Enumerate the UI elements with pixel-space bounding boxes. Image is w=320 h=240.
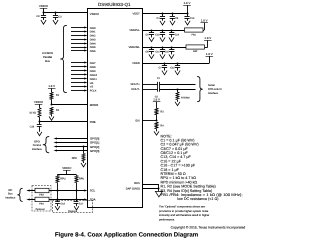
- wire RPU rail: [58, 174, 77, 176]
- label I2C Bus Interface: [5, 189, 16, 200]
- svg-text:Figure 8-4. Coax Application C: Figure 8-4. Coax Application Connection …: [55, 231, 199, 238]
- resistor RTERM: [176, 92, 189, 100]
- pin VDDIO label: [90, 12, 100, 16]
- svg-text:I2C: I2C: [8, 189, 12, 192]
- brace LVCMOS parallel bus: [60, 25, 67, 92]
- svg-text:DIN8: DIN8: [90, 66, 96, 69]
- pin DIN3 wire+arrow: [71, 38, 96, 41]
- copyright line: [171, 225, 246, 229]
- node junction C3: [55, 12, 57, 14]
- power label 1.8 V (VDDPLL): [200, 19, 208, 23]
- ferrite bead FB2: [186, 45, 205, 53]
- wire 1.8V to R3: [156, 102, 158, 109]
- pin DOUT+ label: [131, 83, 141, 86]
- capacitor C5: [146, 30, 155, 42]
- node SCL junction (right col): [76, 190, 78, 192]
- svg-text:LVCMOS: LVCMOS: [42, 52, 53, 55]
- svg-text:C13: C13: [190, 17, 195, 20]
- label LVCMOS Parallel Bus: [42, 52, 53, 63]
- svg-text:DIN9: DIN9: [90, 70, 96, 73]
- label GPO Control Interface: [32, 140, 43, 151]
- power label 1.8 V (VDDD): [206, 52, 214, 57]
- pin GPO[2] wire+arrow: [54, 145, 100, 149]
- svg-text:DIN2: DIN2: [90, 35, 96, 38]
- wire SDA to C17: [76, 199, 78, 201]
- capacitor C3: [53, 13, 62, 25]
- ground (below R4): [154, 131, 159, 135]
- svg-text:Parallel: Parallel: [43, 56, 52, 59]
- capacitor C18: [30, 122, 42, 132]
- wire RPU to SCL: [57, 183, 59, 191]
- pin VDDT label: [132, 12, 140, 15]
- pin DIN4 wire+arrow: [71, 42, 96, 45]
- capacitor C1 (series): [157, 77, 161, 87]
- node RTERM junction: [177, 89, 179, 91]
- svg-text:GPO[3]: GPO[3]: [90, 149, 100, 153]
- svg-text:DOUT-: DOUT-: [131, 88, 139, 91]
- pin GPO[1] wire+arrow: [54, 141, 100, 145]
- svg-text:MODE: MODE: [90, 103, 99, 107]
- wire R2 to ground: [51, 114, 53, 116]
- ferrite bead FB4: [35, 197, 49, 205]
- pin DIN11 wire+arrow: [71, 77, 97, 80]
- brace GPO control interface: [43, 137, 49, 153]
- svg-text:PDB: PDB: [90, 120, 96, 124]
- svg-text:HS: HS: [90, 82, 94, 85]
- svg-text:Serial: Serial: [208, 84, 215, 87]
- svg-text:1.8 V: 1.8 V: [204, 36, 211, 40]
- capacitor C12: [170, 63, 180, 75]
- brace I2C bus interface: [17, 188, 22, 201]
- wire VDDIO stub: [66, 170, 68, 174]
- svg-text:provisions to provide higher s: provisions to provide higher system nois…: [159, 210, 209, 213]
- svg-text:VDDIO: VDDIO: [90, 12, 100, 16]
- svg-text:DIN6: DIN6: [90, 50, 96, 53]
- resistor RPU (SDA): [75, 174, 84, 182]
- svg-text:10 kΩ: 10 kΩ: [29, 112, 36, 115]
- ferrite bead FB1: [185, 28, 204, 36]
- resistor R2: [50, 107, 60, 114]
- svg-text:Copyright © 2016, Texas Instru: Copyright © 2016, Texas Instruments Inco…: [171, 225, 246, 229]
- svg-text:C15: C15: [165, 50, 170, 53]
- resistor 10 kOhm: [29, 108, 41, 117]
- wire DOUT- (left of C2): [142, 89, 157, 91]
- op-amp U1 serializer DS90UB933-Q1 chip body: [88, 9, 143, 208]
- svg-text:DIN0: DIN0: [90, 27, 96, 30]
- svg-text:SCL: SCL: [90, 189, 96, 193]
- svg-text:1.8 V: 1.8 V: [206, 52, 213, 56]
- svg-text:VDDT: VDDT: [132, 12, 140, 15]
- svg-text:immunity and will therefore re: immunity and will therefore result in hi…: [159, 214, 209, 217]
- capacitor C17: [74, 202, 84, 207]
- svg-text:Optional: Optional: [68, 210, 77, 213]
- svg-text:RTERM: RTERM: [181, 96, 189, 99]
- wire VDDD rail: [142, 63, 209, 65]
- capacitor C8: [36, 13, 46, 25]
- svg-text:Control: Control: [33, 144, 42, 147]
- optional dashed box (C16 C17): [52, 201, 92, 213]
- capacitor C2 (series): [155, 87, 160, 99]
- pin DIN1 wire+arrow: [71, 30, 96, 33]
- node RPD junction on GPO[2]: [83, 146, 85, 148]
- svg-text:VDDCML: VDDCML: [128, 46, 140, 49]
- pin SCL label: [90, 189, 96, 193]
- svg-text:FPD-Link III: FPD-Link III: [208, 88, 222, 91]
- node SCL junction (left col): [57, 190, 59, 192]
- pin VDDCML label: [128, 46, 140, 49]
- power label 1.8 V (VDDT): [183, 1, 191, 5]
- svg-text:VS: VS: [90, 86, 94, 89]
- svg-text:VDDPLL: VDDPLL: [129, 29, 140, 32]
- node IDX junction: [156, 120, 158, 122]
- capacitor C10: [155, 30, 165, 42]
- wire VDDCML rail: [142, 47, 186, 49]
- svg-text:FB2: FB2: [193, 50, 198, 53]
- node DAP junction: [158, 188, 160, 190]
- resistor RPD: [72, 154, 85, 162]
- ground (below C18): [37, 132, 42, 136]
- svg-text:RPU: RPU: [79, 178, 84, 181]
- wire 1.8V to R1: [51, 88, 53, 92]
- node PDB junction: [39, 121, 41, 123]
- ground (power ground triangle): [155, 191, 162, 197]
- svg-text:RES: RES: [134, 182, 140, 185]
- node MODE junction: [51, 104, 53, 106]
- node junction C8: [43, 12, 45, 14]
- svg-text:C16: C16: [60, 203, 65, 206]
- wire RES: [142, 184, 159, 186]
- power label VDDIO (PDB pullup): [34, 100, 44, 104]
- svg-text:VDDIO: VDDIO: [62, 166, 72, 170]
- wire DOUT- to RTERM: [177, 89, 179, 92]
- resistor R4: [155, 122, 164, 129]
- wire VDDIO to 10k: [39, 104, 41, 108]
- ground (below RPD): [81, 163, 86, 167]
- svg-text:DIN7: DIN7: [90, 62, 96, 65]
- svg-text:1.8 V: 1.8 V: [201, 19, 208, 23]
- wire FB2 to 1.8V: [205, 40, 208, 47]
- wire SDA: [26, 198, 87, 200]
- note component values text: [161, 134, 243, 201]
- node SDA junction (right col): [76, 199, 78, 201]
- resistor R3: [155, 108, 164, 115]
- svg-text:C12: C12: [170, 67, 175, 70]
- pin IDX label: [135, 120, 140, 123]
- figure caption: [55, 231, 199, 238]
- wire R3 to IDX node: [156, 115, 158, 121]
- wire MODE: [52, 104, 88, 106]
- pin GPO[0] wire+arrow: [54, 137, 100, 141]
- svg-text:C18: C18: [30, 125, 35, 128]
- svg-text:DIN3: DIN3: [90, 38, 96, 41]
- capacitor C9: [170, 13, 179, 26]
- svg-text:1.8 V: 1.8 V: [184, 1, 191, 5]
- wire DOUT- (right of C2): [159, 89, 195, 91]
- svg-text:GPO: GPO: [34, 140, 40, 143]
- pin DIN9 wire+arrow: [71, 69, 96, 73]
- pin VDDD label: [132, 62, 140, 65]
- svg-text:Interface: Interface: [208, 92, 219, 95]
- wire R1 to MODE node: [51, 99, 53, 104]
- brace serial FPD-Link III interface: [197, 77, 203, 102]
- svg-text:FB3: FB3: [39, 194, 44, 197]
- svg-text:Bus: Bus: [8, 193, 13, 196]
- pin GPO[3] wire+arrow: [54, 149, 100, 153]
- svg-text:FB1: FB1: [192, 33, 197, 36]
- svg-text:PCLK: PCLK: [90, 90, 97, 93]
- ground (below C16): [55, 206, 60, 210]
- pin DIN2 wire+arrow: [71, 34, 96, 37]
- capacitor C6: [146, 47, 155, 59]
- pin DIN0 wire+arrow: [71, 26, 96, 29]
- power label 1.8 V (VDDCML): [204, 36, 212, 41]
- wire VDDIO drop: [43, 8, 45, 13]
- capacitor C14: [169, 30, 180, 42]
- wire IDX: [142, 120, 156, 122]
- pin DIN5 wire+arrow: [71, 46, 96, 49]
- capacitor C4: [157, 13, 166, 26]
- wire 1.8V to VDDT rail: [187, 5, 189, 13]
- wire VDDPLL rail: [142, 30, 184, 32]
- pin PCLK wire+arrow: [71, 89, 97, 92]
- wire PDB: [39, 121, 87, 123]
- svg-text:RPU: RPU: [60, 178, 65, 181]
- power label 1.8 V (MODE pullup): [48, 84, 56, 88]
- wire SCL: [26, 189, 87, 191]
- wire 10k to PDB node: [39, 117, 41, 122]
- label Serial FPD-Link III Interface: [208, 84, 222, 95]
- svg-text:Bus: Bus: [45, 60, 50, 63]
- svg-text:C11: C11: [155, 50, 160, 53]
- ferrite bead FB3: [35, 188, 49, 196]
- svg-text:DIN11: DIN11: [90, 78, 98, 81]
- wire DOUT+ (left of C1): [142, 84, 157, 86]
- svg-text:The "Optional" components show: The "Optional" components shown are: [159, 206, 205, 209]
- wire DOUT+ (right of C1): [159, 84, 195, 86]
- svg-text:DIN1: DIN1: [90, 31, 96, 34]
- wire VDDD to 1.8V: [209, 56, 211, 63]
- pin DAP (GND) label: [126, 188, 140, 191]
- svg-text:1.8 V: 1.8 V: [48, 84, 55, 88]
- resistor R1: [50, 92, 60, 99]
- wire GPO[2] to RPD: [83, 147, 85, 154]
- resistor RPU (SCL): [56, 174, 66, 182]
- capacitor C16: [55, 202, 65, 207]
- pin VDDPLL label: [129, 29, 140, 32]
- wire RTERM to ground: [177, 100, 179, 102]
- svg-text:Interface: Interface: [5, 196, 16, 199]
- svg-text:low DC resistance (<1 Ω): low DC resistance (<1 Ω): [177, 197, 218, 201]
- wire VDDT rail: [142, 13, 187, 15]
- pin RES label: [134, 182, 140, 185]
- svg-text:performance.: performance.: [159, 218, 175, 221]
- power label VDDIO (I2C pullups): [62, 166, 72, 171]
- optional dashed box (FB3 FB4): [32, 186, 51, 211]
- wire RPD to ground: [83, 161, 85, 163]
- pin HS wire+arrow: [71, 81, 94, 84]
- ground (below C17): [74, 206, 79, 210]
- svg-text:DS90UB933-Q1: DS90UB933-Q1: [98, 2, 131, 7]
- chip title DS90UB933-Q1: [98, 2, 131, 7]
- pin DIN7 wire+arrow: [71, 61, 96, 65]
- svg-text:VDDIO: VDDIO: [39, 4, 49, 8]
- wire SCL to C16: [57, 191, 59, 202]
- svg-text:C14: C14: [175, 33, 180, 36]
- wire RPU to SDA: [76, 183, 78, 200]
- ground (below RTERM): [175, 102, 180, 106]
- svg-text:1.8 V: 1.8 V: [153, 98, 160, 102]
- capacitor C11: [155, 47, 165, 59]
- capacitor C13: [184, 13, 195, 26]
- svg-text:FB4: FB4: [39, 203, 44, 206]
- wire RES down to DAP node: [158, 185, 160, 192]
- svg-text:DAP (GND): DAP (GND): [126, 188, 140, 191]
- note optional components paragraph: [159, 206, 209, 222]
- pin DIN10 wire+arrow: [71, 73, 98, 76]
- svg-text:Interface: Interface: [32, 148, 43, 151]
- svg-text:C17: C17: [79, 203, 84, 206]
- svg-text:VDDD: VDDD: [132, 62, 140, 65]
- node SDA junction (left col): [57, 199, 59, 201]
- svg-text:DIN4: DIN4: [90, 42, 96, 45]
- wire FB1 to 1.8V: [203, 23, 205, 31]
- svg-text:IDX: IDX: [135, 120, 140, 123]
- svg-text:DIN5: DIN5: [90, 46, 96, 49]
- svg-text:DIN10: DIN10: [90, 74, 98, 77]
- svg-text:DOUT+: DOUT+: [131, 83, 141, 86]
- pin SDA label: [90, 198, 96, 202]
- svg-text:Optional: Optional: [36, 208, 45, 211]
- capacitor C15: [165, 47, 175, 59]
- pin DOUT- label: [131, 88, 139, 91]
- power label 1.8 V (IDX): [153, 98, 161, 102]
- svg-text:RPD: RPD: [72, 157, 77, 160]
- wire VDDIO rail: [44, 12, 88, 14]
- pin VS wire+arrow: [71, 85, 93, 88]
- pin DIN8 wire+arrow: [71, 65, 96, 69]
- pin PDB label: [90, 120, 96, 124]
- ground (below R2): [49, 117, 54, 121]
- capacitor C7: [159, 63, 168, 75]
- power label VDDIO (top left): [39, 4, 49, 9]
- wire R4 to ground: [156, 129, 158, 132]
- pin MODE label: [90, 103, 99, 107]
- svg-text:C10: C10: [155, 33, 160, 36]
- pin DIN6 wire+arrow: [71, 49, 96, 53]
- wire DAP: [142, 188, 159, 190]
- svg-text:VDDIO: VDDIO: [34, 100, 44, 104]
